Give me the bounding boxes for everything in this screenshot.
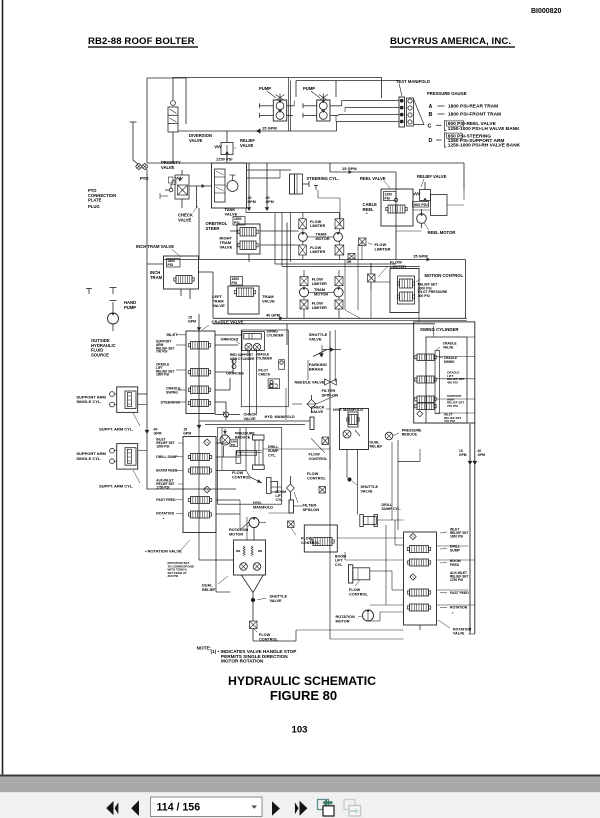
label support relief right [447, 394, 465, 408]
label boom feed [156, 469, 183, 473]
relief valve 1250 [215, 131, 234, 160]
label rot fast feed [440, 591, 469, 595]
label rot inlet relief [440, 528, 468, 539]
svg-text:BI000820: BI000820 [531, 8, 561, 15]
drill spool 1 [188, 454, 211, 461]
svg-text:REEL: REEL [363, 207, 375, 212]
label inch tram [150, 270, 163, 280]
flow limiter A3 [299, 245, 307, 255]
svg-text:HYD. MANIFOLD: HYD. MANIFOLD [265, 415, 295, 419]
reel motor [417, 209, 427, 228]
wire main bus y163 [147, 162, 464, 164]
label rotation valve 2 [438, 620, 472, 636]
swing spool 1 [415, 354, 436, 361]
hyd manifold bar 2 [289, 500, 294, 513]
rot inlet diamond [410, 533, 416, 539]
svg-text:VALVE: VALVE [178, 217, 192, 222]
label aux inlet relief [156, 479, 183, 490]
label test manifold [396, 79, 430, 84]
label flow limiter B bottom [312, 302, 327, 310]
wire rotation motor wires [247, 517, 266, 540]
label cradle swing right [440, 356, 457, 364]
wire support cyl 1 [138, 394, 147, 405]
svg-text:STEERING: STEERING [161, 401, 180, 405]
svg-text:STEER: STEER [206, 226, 220, 231]
svg-text:TRAM: TRAM [150, 275, 163, 280]
boom lift cyl right [349, 565, 377, 583]
svg-text:GR: GR [347, 260, 352, 264]
label 15 gpm cradle [188, 316, 196, 324]
swing spool 2 [415, 376, 436, 383]
label rotation valve note [145, 540, 190, 554]
svg-text:VALVE: VALVE [262, 299, 275, 304]
wire diversion drop [173, 133, 227, 164]
label steering cyl [307, 176, 339, 181]
label drill sump cyl 2 [382, 503, 402, 511]
diversion valve [168, 107, 178, 132]
svg-text:BRAKE: BRAKE [309, 367, 324, 372]
swing inlet diamond [417, 411, 423, 417]
wire support cyl 2 [138, 450, 147, 452]
pto coupling [136, 163, 148, 173]
label inlet [167, 333, 187, 337]
svg-text:REEL MOTOR: REEL MOTOR [428, 230, 456, 235]
toolbar page input box [151, 797, 263, 817]
svg-text:MOTOR ROTATION: MOTOR ROTATION [221, 658, 264, 663]
label pressure reduce [235, 432, 255, 440]
label 40 gpm bank [154, 428, 162, 436]
filter spin-on 2 symbol [286, 476, 294, 500]
svg-text:PRESSURE GAUGE: PRESSURE GAUGE [427, 91, 467, 96]
wire filter diag [311, 395, 337, 453]
label fast feed [156, 498, 183, 502]
wire top bus 2 [296, 81, 399, 98]
pressure reducer right [385, 432, 393, 440]
svg-text:MOTOR: MOTOR [229, 532, 243, 536]
svg-text:LIMITER: LIMITER [375, 247, 391, 252]
drill inlet diamond [204, 439, 211, 446]
label orifices 2 [226, 372, 244, 376]
label rotation motor 1 [229, 525, 250, 536]
svg-text:900 PSI: 900 PSI [414, 203, 428, 207]
svg-text:GPM: GPM [154, 432, 162, 436]
rot spool 2 [407, 559, 430, 566]
label pump 2 [303, 86, 320, 98]
svg-text:SUPPT. ARM CYL.: SUPPT. ARM CYL. [99, 427, 133, 432]
wire orbitrol to steering cyl [247, 170, 292, 178]
svg-text:SWING: SWING [444, 360, 455, 364]
label drill sump cyl 1 [268, 445, 279, 457]
swing spool 3 [415, 396, 436, 403]
svg-text:PSI: PSI [232, 281, 238, 285]
support arm cyl assembly 1 [110, 387, 138, 413]
svg-text:CYL.: CYL. [268, 453, 276, 457]
wire shuttle vertical [330, 330, 335, 470]
wire top bus [173, 78, 382, 101]
wire cradle cyl drops [250, 351, 257, 414]
gauge line A [429, 104, 499, 110]
shuttle valve 2 symbol [348, 478, 351, 481]
svg-text:CHECK: CHECK [258, 372, 270, 376]
svg-text:SUPPT. ARM CYL.: SUPPT. ARM CYL. [99, 484, 133, 489]
label cradle lift relief right [447, 371, 465, 385]
wire top-left loop [147, 78, 186, 163]
hand pump [86, 288, 119, 325]
svg-text:1250 PSI: 1250 PSI [216, 157, 232, 162]
svg-text:FLOW: FLOW [232, 471, 244, 475]
svg-text:DUAL: DUAL [202, 584, 213, 588]
cradle cylinder assembly [242, 332, 265, 351]
label check valve 1 [178, 206, 198, 222]
label priority valve [161, 160, 181, 170]
svg-text:PSI: PSI [385, 196, 391, 200]
psi box mid [230, 439, 238, 447]
wire 15gpm row2 [330, 163, 396, 174]
needle valve symbol [325, 379, 337, 385]
wire tank return [318, 190, 340, 226]
wire pump return 15gpm [178, 122, 337, 134]
svg-text:1800 PSI: 1800 PSI [156, 444, 169, 448]
wire cradle right links [215, 335, 242, 420]
toolbar first-page button [106, 801, 118, 815]
svg-text:40 GPM: 40 GPM [266, 314, 280, 318]
svg-text:VALVE: VALVE [453, 632, 465, 636]
svg-text:VALVE: VALVE [220, 245, 233, 250]
page bottom border [0, 775, 600, 777]
label 15 gpm vert [459, 449, 467, 457]
svg-text:ORIFICES: ORIFICES [221, 338, 239, 342]
support arm cyl assembly 2 [110, 444, 138, 470]
steering cylinder [290, 174, 319, 194]
flow limiter B3 [300, 300, 308, 309]
label 15 gpm row2 [342, 166, 357, 171]
svg-text:VALVE: VALVE [443, 345, 454, 349]
drill spool 3 [188, 497, 211, 504]
rot spool 1 [407, 546, 430, 553]
grey band below page [0, 777, 600, 793]
label filter spin-on 1 [322, 388, 339, 398]
reel valve [381, 189, 413, 226]
svg-text:CHECK: CHECK [311, 406, 325, 410]
drill sump cyl horizontal [360, 515, 378, 527]
wire right tram wires [230, 231, 299, 262]
svg-text:PTO: PTO [140, 176, 149, 181]
label 900 psi [413, 202, 429, 208]
tank valve 1800 psi box [233, 217, 245, 226]
label relief valve [234, 138, 255, 149]
flow limiter A4 [335, 245, 344, 255]
label flow limiter B top [312, 278, 327, 286]
wire main vertical x199 [197, 314, 202, 432]
svg-text:INCH TRAM VALVE: INCH TRAM VALVE [136, 244, 174, 249]
label shuttle valve mid [309, 332, 328, 342]
wire bottom bus [199, 432, 296, 641]
toolbar next-view icon disabled [344, 800, 361, 817]
swing cyl channel [435, 351, 439, 414]
svg-text:CYLINDER: CYLINDER [256, 356, 273, 360]
svg-text:1250-1000 PSI-LH VALVE BANK: 1250-1000 PSI-LH VALVE BANK [448, 126, 520, 132]
svg-text:B: B [429, 112, 433, 118]
svg-text:VALVE: VALVE [361, 489, 374, 493]
svg-text:VALVE: VALVE [240, 143, 254, 148]
svg-text:MOTOR: MOTOR [314, 292, 328, 296]
gauge line C [428, 121, 521, 132]
wire between pumps [289, 78, 295, 132]
svg-text:400 PSI: 400 PSI [447, 380, 458, 384]
label suppt arm cyl 1 [99, 413, 140, 432]
label swing cylinder [420, 327, 459, 332]
label cable reel [363, 202, 378, 216]
wire tram motor B loop [304, 270, 339, 318]
label 40 gpm b [266, 196, 274, 204]
svg-text:MOTOR: MOTOR [336, 619, 350, 623]
flow control 1 symbol [250, 477, 262, 484]
svg-text:SUMP: SUMP [450, 549, 461, 553]
cradle valve bank [186, 331, 215, 414]
flow control r1 symbol [322, 437, 329, 445]
tram motor B left [299, 288, 308, 297]
label relief valve right [417, 174, 447, 187]
label 15 GPM top [262, 126, 277, 131]
wire left tram feed [212, 272, 214, 318]
svg-text:RELIEF: RELIEF [370, 445, 384, 449]
svg-text:PSI: PSI [231, 443, 236, 447]
svg-text:114 / 156: 114 / 156 [157, 802, 201, 814]
label pump 1 [259, 86, 276, 98]
page number 103 [291, 725, 307, 736]
svg-text:ROTATION: ROTATION [450, 606, 468, 610]
label pressure reduce right [393, 429, 422, 437]
label shuttle valve bottom [257, 595, 287, 603]
svg-text:FLOW: FLOW [309, 453, 321, 457]
orbitrol steer unit [212, 163, 247, 208]
label suppt arm cyl 2 [99, 470, 140, 489]
drill valve bank [183, 437, 216, 533]
boom lift cyl small [267, 478, 278, 494]
label flow control 1 [232, 471, 251, 479]
label inch tram valve [136, 244, 181, 257]
svg-text:SWING CYLINDER: SWING CYLINDER [420, 327, 459, 332]
wire right drop x464 [463, 163, 465, 190]
label parking brake [309, 362, 327, 372]
wire bottom right bus [296, 445, 404, 639]
wire main vertical x147 [145, 208, 150, 457]
label pto [140, 176, 149, 181]
orifice circles [232, 360, 236, 369]
svg-text:LIMITER: LIMITER [312, 282, 327, 286]
toolbar last-page button [295, 801, 308, 816]
svg-text:PUMP: PUMP [303, 86, 315, 91]
parking brake symbol [313, 345, 327, 357]
label flow limiter A top [310, 220, 325, 228]
svg-text:STEERING CYL.: STEERING CYL. [307, 176, 339, 181]
gauge line D [429, 133, 521, 149]
svg-text:CONTROL: CONTROL [309, 457, 328, 461]
label 15 gpm mid [413, 254, 428, 259]
label filter spin-on 2 [294, 492, 319, 512]
svg-text:GPM: GPM [266, 200, 274, 204]
svg-text:CYL.: CYL. [335, 563, 343, 567]
label rot boom feed [440, 559, 461, 567]
svg-text:FLOW: FLOW [307, 472, 319, 476]
wire right trunk [347, 440, 420, 530]
svg-text:C: C [428, 124, 432, 130]
flow control bottom symbol [250, 621, 258, 629]
svg-text:VALVE: VALVE [189, 138, 203, 143]
check valve symbol mid [215, 412, 240, 418]
label rotation motor 2 [336, 615, 363, 623]
wire reel drop [395, 172, 397, 260]
svg-text:A: A [429, 104, 433, 110]
svg-text:GPM: GPM [188, 320, 196, 324]
relief valve 900 [413, 182, 447, 216]
wire inch tram feeds [147, 264, 213, 299]
svg-text:15 GPM: 15 GPM [342, 166, 357, 171]
label flow limiter A bottom [310, 246, 325, 254]
svg-text:15 GPM: 15 GPM [262, 126, 277, 131]
wire x147 to drill bank [147, 457, 236, 489]
label inlet relief set [156, 438, 183, 449]
label rotation set block [168, 561, 195, 578]
label pressure gauge [427, 91, 467, 96]
hyd manifold bar [310, 417, 314, 430]
wire flow limiter D [370, 263, 372, 290]
flow limiter B2 [335, 277, 343, 286]
wire mid verticals [246, 208, 339, 267]
pressure reducer mid [220, 429, 230, 445]
svg-text:GPM: GPM [183, 432, 191, 436]
svg-text:PLATE: PLATE [88, 198, 102, 203]
svg-text:HYD.: HYD. [253, 501, 262, 505]
wire manifold links [199, 421, 330, 513]
wire 15gpm to motion [164, 258, 466, 262]
rotation valve bank [404, 532, 437, 625]
svg-text:VALVE: VALVE [161, 165, 175, 170]
svg-text:GPM: GPM [248, 200, 256, 204]
flow limiter C box [359, 238, 367, 246]
svg-text:CONTROL: CONTROL [232, 475, 251, 479]
svg-text:CYLINDER: CYLINDER [267, 333, 284, 337]
svg-text:VALVE: VALVE [225, 212, 238, 217]
svg-text:SINGLE CYL.: SINGLE CYL. [76, 456, 101, 461]
label needle valve [295, 380, 325, 385]
swing cylinder outer box [414, 322, 475, 423]
svg-text:FLOW: FLOW [259, 633, 271, 637]
wire dual relief out [241, 575, 264, 599]
svg-text:300 PSI: 300 PSI [418, 294, 430, 298]
label 40 gpm bus [266, 314, 280, 318]
svg-text:PUMP: PUMP [259, 86, 271, 91]
label cradle valve small [436, 342, 457, 351]
cradle plumbing inner box [241, 330, 288, 407]
label check valve 2 [244, 413, 258, 421]
dual relief bottom assembly [234, 540, 266, 575]
cradle spool 2 [188, 369, 210, 377]
svg-text:VALVE: VALVE [309, 337, 322, 342]
wire pumps to test manifold [336, 101, 399, 122]
svg-text:BOOM FEED: BOOM FEED [156, 469, 178, 473]
wire tram motor A loop [303, 212, 340, 260]
cradle spool 1 [188, 342, 210, 350]
svg-text:ROTATION: ROTATION [156, 512, 174, 516]
svg-text:1800 PSI-REAR TRAM: 1800 PSI-REAR TRAM [448, 104, 498, 110]
label inlet relief 700 right [444, 413, 462, 424]
label 40 gpm a [248, 196, 256, 204]
svg-text:ARM CYLINDER: ARM CYLINDER [230, 357, 255, 361]
svg-text:NOTE:: NOTE: [197, 646, 212, 651]
priority valve [160, 170, 189, 208]
wire hand pump down [112, 324, 114, 331]
svg-text:GPM: GPM [478, 453, 486, 457]
flow control r2 symbol [319, 487, 326, 494]
label boom lift cyl 1 [276, 490, 287, 502]
label flow limiter D [378, 260, 406, 278]
svg-text:TRAM: TRAM [316, 233, 327, 237]
toolbar prev-page button [131, 800, 139, 816]
svg-text:SHUTTLE: SHUTTLE [270, 595, 288, 599]
label red support arm cylinder [230, 353, 255, 361]
svg-text:SPIN-ON: SPIN-ON [303, 507, 320, 512]
drill spool 2 [188, 467, 211, 474]
svg-text:700 PSI: 700 PSI [156, 350, 167, 354]
pressure reducer box assembly [304, 525, 337, 552]
note text [197, 646, 297, 664]
wire swing feed stubs [419, 313, 434, 338]
svg-text:NEEDLE VALVE: NEEDLE VALVE [295, 380, 325, 385]
svg-text:1800 PSI: 1800 PSI [450, 534, 463, 538]
svg-text:MANIFOLD: MANIFOLD [253, 505, 273, 509]
label flow control r1 [309, 453, 328, 461]
label flow control r2 [307, 472, 326, 480]
wire rot bank right links [437, 546, 476, 634]
label flow limiter C [368, 242, 391, 252]
filter spin-on 1 symbol [307, 395, 316, 413]
pilot check box [268, 379, 280, 389]
label swing cylinder small [267, 330, 284, 338]
wire needle drop [286, 388, 302, 420]
svg-text:TRAM: TRAM [314, 288, 325, 292]
svg-text:300 PSI: 300 PSI [168, 574, 179, 578]
wire 40gpm feeds [247, 163, 269, 211]
wire swing spool links [436, 337, 475, 413]
diversion valve drain circle [171, 101, 176, 106]
svg-text:LIMITER: LIMITER [310, 224, 325, 228]
wire mid bus extra [275, 264, 420, 267]
flow limiter D box [368, 274, 376, 282]
mid manifold enclosure box [218, 428, 282, 505]
rot spool 4 [407, 604, 430, 611]
pump P1 [260, 94, 295, 122]
label left tram valve [212, 294, 225, 308]
svg-text:CONTROL: CONTROL [349, 592, 368, 596]
label rot drill sump [440, 545, 461, 553]
shuttle valve bottom [251, 598, 255, 621]
label dual relief bottom [202, 576, 228, 592]
svg-text:PLUG: PLUG [88, 204, 100, 209]
svg-text:RELIEF: RELIEF [202, 588, 216, 592]
swing spool 4 [415, 403, 436, 410]
wire cradle cyl down [248, 349, 257, 356]
svg-text:DRILL SUMP: DRILL SUMP [156, 455, 178, 459]
svg-text:FEED: FEED [450, 563, 460, 567]
svg-text:FIGURE 80: FIGURE 80 [270, 688, 337, 703]
svg-text:PSI: PSI [168, 263, 174, 267]
label drill sump [156, 455, 183, 459]
swing cyl inner box [426, 337, 467, 423]
svg-text:RB2-88 ROOF BOLTER: RB2-88 ROOF BOLTER [88, 36, 195, 47]
svg-text:MOTOR: MOTOR [316, 237, 330, 241]
svg-text:FAST FEED: FAST FEED [156, 498, 176, 502]
